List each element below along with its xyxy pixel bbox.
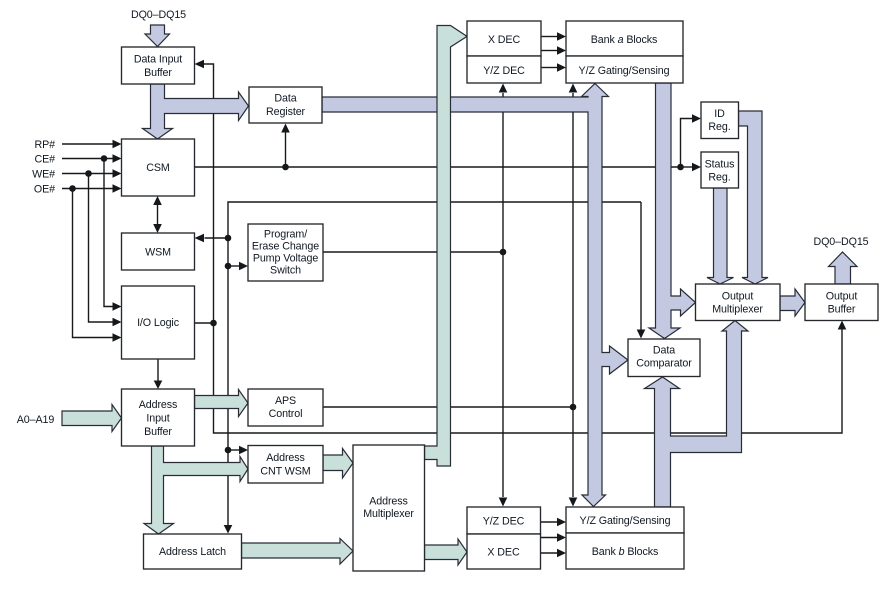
wire into ID Reg and Status Reg [677,114,701,171]
wire gating net (vertical x=573) [569,84,578,507]
wire down into Data Comparator top [637,202,646,339]
box Bank b Blocks [566,533,684,569]
svg-text:Address: Address [369,496,408,508]
box ID Reg [701,102,739,139]
svg-text:Output: Output [826,291,858,303]
svg-text:Control: Control [269,408,303,420]
svg-text:Comparator: Comparator [636,358,692,370]
svg-text:Y/Z DEC: Y/Z DEC [483,65,525,77]
wire up into Data Register bottom [281,124,290,171]
svg-text:Register: Register [266,106,306,118]
bus Y/Z Gating/Sensing b to Data Comparator and Output Multiplexer [645,321,749,508]
box I/O Logic [122,286,195,359]
svg-text:APS: APS [275,395,296,407]
svg-text:Address Latch: Address Latch [159,546,226,558]
svg-text:Switch: Switch [270,265,301,277]
wire Pump Switch output to Y/Z DEC net [323,249,506,256]
svg-text:Pump Voltage: Pump Voltage [253,253,319,265]
svg-text:Bank a Blocks: Bank a Blocks [591,34,657,46]
svg-text:Bank b Blocks: Bank b Blocks [592,546,658,558]
svg-text:Data Input: Data Input [134,54,182,66]
svg-text:CE#: CE# [35,154,56,166]
wire CE# into CSM with branch to I/O Logic [62,154,122,311]
svg-text:Reg.: Reg. [708,121,730,133]
bus Address CNT WSM to Address Multiplexer [323,449,353,479]
svg-text:WSM: WSM [145,247,171,259]
box Y/Z DEC a [467,56,541,83]
box Y/Z Gating/Sensing a [566,56,683,83]
bus Y/Z Gating/Sensing a to Output Multiplexer and Data Comparator [649,83,696,339]
box Status Reg [701,152,739,188]
wire WE# into CSM with branch to I/O Logic [62,169,122,326]
svg-text:Multiplexer: Multiplexer [712,304,763,316]
svg-text:WE#: WE# [32,169,55,181]
svg-text:I/O Logic: I/O Logic [137,317,180,329]
wire CSM-WSM double arrow [153,196,162,233]
box Data Register [249,87,322,123]
box APS Control [248,389,323,426]
bus Address Input Buffer to APS Control [195,390,249,417]
svg-text:Reg.: Reg. [708,172,730,184]
svg-text:Erase Change: Erase Change [252,241,319,253]
wire OE# into CSM with branch to I/O Logic [62,184,122,342]
bus DQ0-DQ15 down into Data Input Buffer [145,25,170,47]
bus Data Input Buffer to CSM and Data Register [143,84,249,139]
wire I/O Logic bottom to Address Input Buffer [154,359,163,389]
wire Y/Z DEC net (vertical x=503) [499,84,508,507]
svg-text:CSM: CSM [146,162,170,174]
svg-text:X DEC: X DEC [487,547,520,559]
bus A0-A19 into Address Input Buffer [62,405,122,432]
svg-text:Y/Z Gating/Sensing: Y/Z Gating/Sensing [579,65,670,77]
svg-text:ID: ID [714,108,725,120]
wire CSM output to ID/Status registers [195,166,681,168]
bus Data Register to Y/Z Gating/Sensing banks (main vertical) [322,84,628,507]
svg-text:Y/Z DEC: Y/Z DEC [483,516,525,528]
svg-text:A0–A19: A0–A19 [17,414,55,426]
wire feedback net: to Data Input Buffer and to Output Buffer bottom [195,60,847,433]
box Output Multiplexer [696,284,781,321]
box Y/Z Gating/Sensing b [566,507,684,533]
svg-text:Data: Data [274,93,296,105]
box Y/Z DEC b [467,507,541,534]
box Output Buffer [805,284,878,321]
svg-text:Status: Status [705,159,735,171]
bus Address Input Buffer to Address Latch and Address CNT WSM [144,446,248,534]
svg-text:Address: Address [139,399,178,411]
wire RP# into CSM [62,140,122,149]
bus Address Latch to Address Multiplexer [242,539,354,565]
svg-text:X DEC: X DEC [488,34,521,46]
box Address Input Buffer [122,389,195,446]
box X DEC a [467,21,541,56]
box Bank a Blocks [566,21,683,56]
box Program/Erase Change Pump Voltage Switch [248,224,323,281]
box Data Comparator [628,339,700,377]
wire X DEC / Y/Z DEC to Bank a arrows [541,32,566,72]
box Address Multiplexer [353,445,425,571]
bus Output Buffer to DQ0-DQ15 [829,252,858,284]
bus Status Reg to Output Multiplexer [707,188,734,284]
bus Address Multiplexer to X DEC b [425,539,468,565]
wire I/O Logic output to feedback net [195,320,217,327]
svg-text:CNT WSM: CNT WSM [260,466,310,478]
svg-text:DQ0–DQ15: DQ0–DQ15 [813,236,868,248]
svg-text:Address: Address [266,452,305,464]
box X DEC b [467,534,541,569]
svg-text:RP#: RP# [35,139,56,151]
box Address Latch [144,534,242,569]
svg-text:Input: Input [146,413,169,425]
bus Output Multiplexer to Output Buffer [780,289,805,316]
svg-text:Y/Z Gating/Sensing: Y/Z Gating/Sensing [580,515,671,527]
bus Address Multiplexer to X DEC a (vertical address bus) [425,26,468,467]
svg-text:Buffer: Buffer [144,426,172,438]
bus ID Reg to Output Multiplexer [739,111,769,284]
box Address CNT WSM [248,446,323,484]
svg-text:Buffer: Buffer [828,304,856,316]
wire WSM control net (vertical x=228) with branches [195,202,642,534]
wire APS Control output to gating net [323,404,576,411]
wire Y/Z DEC / X DEC to Bank b arrows [541,518,567,558]
svg-text:Data: Data [653,345,675,357]
svg-text:Program/: Program/ [264,229,307,241]
box Data Input Buffer [122,47,195,84]
box WSM [122,233,195,270]
box CSM [122,139,195,196]
svg-text:Output: Output [722,291,754,303]
svg-text:OE#: OE# [34,184,55,196]
svg-text:DQ0–DQ15: DQ0–DQ15 [131,9,186,21]
svg-text:Multiplexer: Multiplexer [363,508,414,520]
svg-text:Buffer: Buffer [144,67,172,79]
